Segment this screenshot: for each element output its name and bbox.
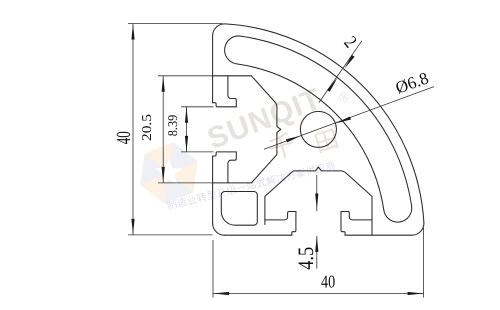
curved corner slot bottom end cap <box>384 206 412 222</box>
dim diameter 6.8 leader line <box>264 87 434 150</box>
dim 40 bottom right extension line <box>423 228 425 298</box>
dim 40 left bottom arrow <box>131 219 134 235</box>
dim diameter 6.8 right arrow <box>335 117 351 124</box>
svg-text:8.39: 8.39 <box>165 115 180 137</box>
dim 4.5 upper line <box>316 175 318 211</box>
dim 8.39 bottom extension line <box>181 151 214 153</box>
dim 8.39 bottom arrow <box>185 136 188 152</box>
bottom face right portion <box>345 234 412 236</box>
bottom slot lower hook <box>265 212 296 220</box>
drill hole circle <box>300 111 336 147</box>
dim 40 bottom right arrow <box>408 292 424 295</box>
dim 20.5 dimension line <box>162 76 164 183</box>
left slot mouth bottom lip <box>213 152 237 156</box>
dim 40 left dimension line <box>132 24 134 235</box>
bottom slot mouth bottom lip <box>292 212 296 236</box>
dim 4.5 lower arrow <box>315 236 318 252</box>
svg-text:4.5: 4.5 <box>293 247 318 270</box>
dim 40 left top arrow <box>131 24 134 40</box>
left slot mouth top lip <box>213 103 237 107</box>
dim 8.39 top extension line <box>181 106 214 108</box>
profile bottom-left corner fillet <box>213 223 225 235</box>
left slot roof <box>213 75 252 77</box>
dim 20.5 bottom arrow <box>162 167 165 183</box>
dim 40 bottom left extension line <box>212 240 214 298</box>
curved corner slot inner arc <box>237 64 384 210</box>
dim 20.5 top arrow <box>162 76 165 92</box>
watermark logo pinwheel <box>140 142 197 203</box>
dim 2 outer arrow <box>344 55 355 69</box>
left slot back wall with screw notch <box>251 76 280 183</box>
dim 40 bottom dimension line <box>213 293 424 295</box>
dim 20.5 top extension line <box>158 75 213 77</box>
bottom slot floor <box>264 196 266 224</box>
svg-text:40: 40 <box>113 131 135 144</box>
dim 8.39 dimension line <box>186 107 188 152</box>
dim 8.39 top arrow <box>185 107 188 123</box>
bottom face left portion <box>225 234 292 236</box>
bottom slot mouth top lip <box>341 212 345 236</box>
dim 4.5 lower line <box>316 236 318 269</box>
dim 20.5 bottom extension line <box>158 182 213 184</box>
bottom slot back wall with screw notch <box>265 167 372 196</box>
dim 2 leader line <box>319 41 362 103</box>
bottom slot roof <box>371 196 373 235</box>
dim 40 bottom left arrow <box>213 292 229 295</box>
profile outer top-left corner fillet <box>213 24 226 36</box>
left slot floor <box>213 182 252 184</box>
profile outer bottom-right corner fillet <box>412 223 424 236</box>
curved corner slot outer arc <box>241 36 412 206</box>
square cavity <box>221 192 257 226</box>
dim 40 left bottom extension line <box>128 234 213 236</box>
left slot lower hook <box>228 152 236 183</box>
bottom slot upper hook <box>341 212 372 220</box>
curved corner slot top end cap <box>225 36 241 64</box>
svg-text:20.5: 20.5 <box>139 114 154 141</box>
profile outer quarter arc <box>225 24 424 223</box>
dim 2 inner arrow <box>327 78 338 92</box>
svg-text:40: 40 <box>321 272 335 292</box>
left face upper <box>212 36 214 103</box>
dim diameter 6.8 left arrow <box>286 136 302 143</box>
dim 4.5 upper arrow <box>315 194 318 210</box>
left face lower <box>212 156 214 223</box>
left slot upper hook <box>228 76 236 107</box>
dim 40 left top extension line <box>128 23 223 25</box>
